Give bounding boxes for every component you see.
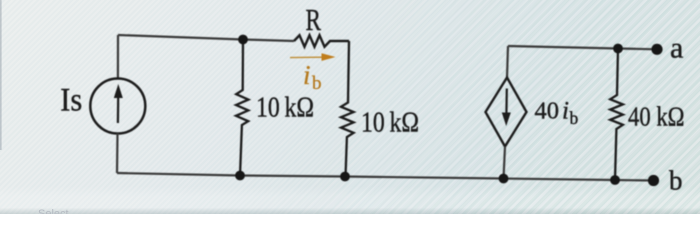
label a <box>670 31 683 64</box>
wire: top wire of left loop <box>118 35 294 41</box>
svg-text:40: 40 <box>535 98 560 125</box>
junction node: top of 40k <box>613 44 623 54</box>
label R <box>306 2 322 37</box>
svg-text:10 kΩ: 10 kΩ <box>361 107 419 138</box>
wire: left vertical (source branch bottom) <box>116 134 119 174</box>
resistor R (horizontal zigzag) <box>294 35 349 46</box>
wire: bottom rail <box>117 173 654 181</box>
wire: dependent source bottom lead <box>504 147 506 179</box>
resistor 10k (first, vertical) with branch wire <box>236 40 248 176</box>
svg-text:b: b <box>570 108 579 128</box>
wire: left vertical (source branch top) <box>117 35 119 79</box>
terminal a dot <box>651 44 662 55</box>
svg-text:10 kΩ: 10 kΩ <box>256 92 314 123</box>
svg-text:b: b <box>312 73 322 94</box>
terminal b dot <box>648 175 659 186</box>
wire: top wire of right section <box>508 46 657 49</box>
label 40 i_b <box>535 98 579 128</box>
label 10kOhm first <box>256 92 314 123</box>
resistor 10k (second, vertical) with branch wire from R <box>341 41 354 177</box>
junction node: bottom of first 10k <box>235 171 245 181</box>
current source Is (circle with up arrow) <box>90 79 145 134</box>
label 40 kOhm <box>628 101 685 131</box>
svg-text:Is: Is <box>60 83 82 119</box>
junction node: bottom of second 10k <box>340 172 350 182</box>
svg-text:40 kΩ: 40 kΩ <box>628 101 685 131</box>
svg-text:Select: Select <box>38 208 69 214</box>
svg-text:i: i <box>303 60 311 90</box>
current arrow i_b (orange) <box>290 53 336 61</box>
svg-text:a: a <box>670 31 683 64</box>
resistor 40k (vertical) with branch wire <box>610 49 623 181</box>
junction node: bottom of dependent source <box>499 174 509 184</box>
label Is <box>60 83 82 119</box>
faint cropped caption bottom left <box>38 208 69 220</box>
dependent current source 40ib (diamond with down arrow) <box>486 78 527 147</box>
label 10kOhm second <box>361 107 419 138</box>
svg-text:R: R <box>306 2 322 37</box>
junction node: top of first 10k <box>238 35 248 45</box>
svg-text:b: b <box>669 166 683 196</box>
label b <box>669 166 683 196</box>
wire: dependent source top lead <box>507 46 508 78</box>
label i_b (orange) <box>303 60 322 94</box>
junction node: bottom of 40k <box>610 175 620 185</box>
svg-text:i: i <box>562 98 569 125</box>
